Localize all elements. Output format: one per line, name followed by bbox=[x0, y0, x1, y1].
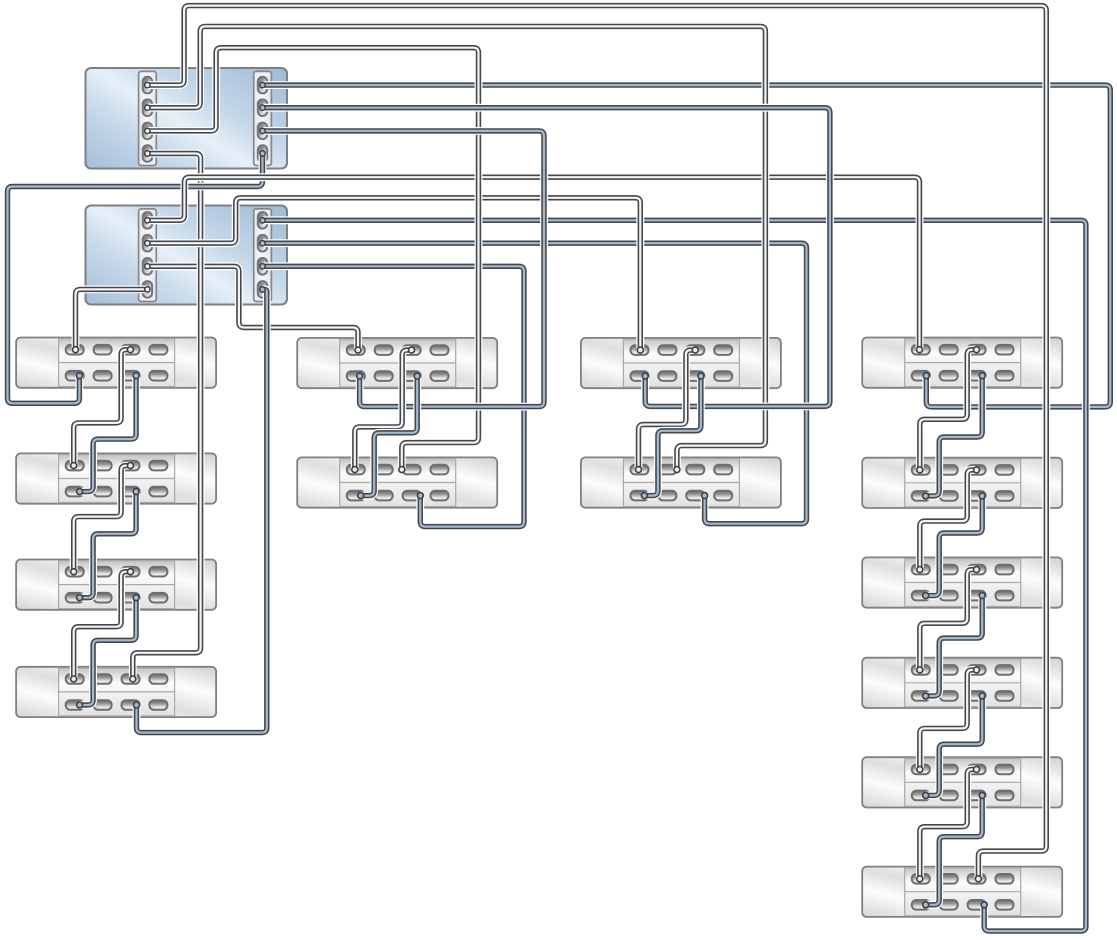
cable C2 right port2 to shelf C2 bottom port3 bbox=[263, 243, 807, 524]
cable C2 left port1 to shelf D1 top port1 bbox=[147, 177, 919, 350]
cable C2 left port4 to shelf A1 top port1 bbox=[76, 289, 148, 349]
shelf C2 (third column row 2) bbox=[581, 457, 781, 507]
cable shelf D2 top port3 to shelf D3 top port1 bbox=[920, 470, 977, 570]
cable C2 right port3 to shelf B2 bottom port3 bbox=[263, 266, 525, 526]
cable shelf D3 bottom port3 to shelf D4 bottom port1 bbox=[926, 596, 983, 696]
cable C1 right port4 to shelf A1 bottom port1 bbox=[8, 154, 263, 404]
cable shelf D5 top port3 to shelf D6 top port1 bbox=[920, 769, 977, 878]
cable shelf D4 bottom port3 to shelf D5 bottom port1 bbox=[926, 696, 983, 796]
cable shelf A2 bottom port3 to shelf A3 bottom port1 bbox=[80, 492, 137, 598]
cable shelf B1 top port3 to shelf B2 top port1 bbox=[355, 350, 412, 470]
cable C2 left port2 to shelf C1 top port1 bbox=[147, 198, 640, 350]
cable shelf A3 bottom port3 to shelf A4 bottom port1 bbox=[80, 598, 137, 705]
cable C2 right port4 to shelf A4 bottom port3 bbox=[137, 289, 267, 732]
cable C2 right port1 to shelf D6 bottom port3 bbox=[263, 220, 1086, 931]
cable C1 right port3 to shelf B1 bottom port1 bbox=[263, 131, 545, 407]
cable shelf A3 top port3 to shelf A4 top port1 bbox=[74, 572, 131, 679]
cable shelf D5 bottom port3 to shelf D6 bottom port1 bbox=[926, 795, 983, 904]
shelf B2 (second column row 2) bbox=[297, 457, 497, 507]
cable shelf D3 top port3 to shelf D4 top port1 bbox=[920, 570, 977, 670]
shelf D2 (right column row 2) bbox=[862, 458, 1062, 508]
controller U1 (top storage controller) bbox=[86, 68, 288, 169]
shelf A1 (left column row 1) bbox=[16, 338, 216, 388]
cable C1 right port2 to shelf C1 bottom port1 bbox=[263, 108, 830, 407]
shelf D1 (right column row 1) bbox=[862, 338, 1062, 388]
shelf D6 (right column row 6) bbox=[862, 867, 1062, 917]
cable shelf D1 top port3 to shelf D2 top port1 bbox=[920, 350, 977, 470]
shelf A4 (left column row 4) bbox=[16, 667, 216, 717]
connector plug rings at cable ends bbox=[71, 82, 988, 907]
cable shelf A2 top port3 to shelf A3 top port1 bbox=[74, 466, 131, 572]
cable C2 left port3 to shelf B1 top port1 bbox=[147, 266, 358, 350]
shelf A2 (left column row 2) bbox=[16, 453, 216, 503]
cable C1 left port4 to shelf A4 top port3 bbox=[133, 154, 201, 680]
cable C1 left port3 to shelf B2 top port3 bbox=[147, 48, 478, 470]
cable shelf D2 bottom port3 to shelf D3 bottom port1 bbox=[926, 496, 983, 596]
cable shelf C1 top port3 to shelf C2 top port1 bbox=[639, 350, 696, 470]
shelf D5 (right column row 5) bbox=[862, 757, 1062, 807]
cable C1 right port1 to shelf D1 bottom port1 bbox=[263, 85, 1111, 407]
cable shelf C1 bottom port3 to shelf C2 bottom port1 bbox=[644, 376, 701, 496]
shelf C1 (third column row 1) bbox=[581, 338, 781, 388]
shelf A3 (left column row 3) bbox=[16, 560, 216, 610]
controller U2 (bottom storage controller) bbox=[86, 206, 288, 305]
cable shelf D1 bottom port3 to shelf D2 bottom port1 bbox=[926, 376, 983, 496]
shelf D3 (right column row 3) bbox=[862, 557, 1062, 607]
cable shelf D4 top port3 to shelf D5 top port1 bbox=[920, 670, 977, 770]
cable shelf A1 top port3 to shelf A2 top port1 bbox=[74, 350, 131, 466]
shelf D4 (right column row 4) bbox=[862, 658, 1062, 708]
cable shelf A1 bottom port3 to shelf A2 bottom port1 bbox=[80, 376, 137, 492]
cable C1 left port2 to shelf C2 top port3 bbox=[147, 26, 765, 469]
shelf B1 (second column row 1) bbox=[297, 338, 497, 388]
cable C1 left port1 to shelf D6 top port3 bbox=[147, 6, 1046, 879]
cable shelf B1 bottom port3 to shelf B2 bottom port1 bbox=[361, 376, 418, 496]
